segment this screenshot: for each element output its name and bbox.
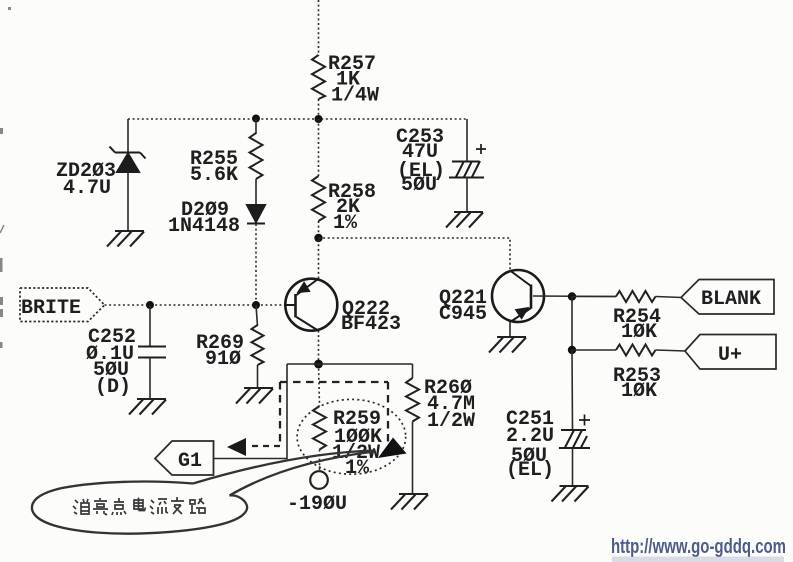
svg-text:5.6K: 5.6K: [190, 164, 238, 187]
svg-text:1ØK: 1ØK: [621, 380, 657, 403]
wire R260 bottom lead: [412, 422, 414, 495]
capacitor C252: [138, 347, 166, 358]
wire Q221 base to node: [533, 295, 616, 298]
resistor R253: [616, 345, 656, 356]
wire node R253 stub: [572, 349, 616, 351]
wire R255 to D209: [255, 179, 257, 205]
ground C252: [129, 399, 166, 415]
wire C251 top lead: [571, 350, 574, 430]
svg-text:1%: 1%: [333, 212, 358, 235]
node junction rail2: [314, 234, 322, 242]
wire node down: [571, 297, 573, 351]
transistor Q221: [492, 270, 544, 322]
svg-text:5ØU: 5ØU: [401, 174, 437, 197]
svg-text:1N4148: 1N4148: [168, 215, 240, 238]
svg-text:1%: 1%: [345, 457, 370, 480]
resistor R258: [312, 176, 325, 221]
diode D209: [247, 205, 265, 224]
resistor R260: [406, 378, 419, 422]
svg-text:BLANK: BLANK: [701, 288, 761, 311]
node junction rail1/R255: [252, 115, 260, 123]
ground ZD203: [107, 231, 144, 247]
wire C253 top lead: [466, 119, 468, 161]
svg-text:91Ø: 91Ø: [205, 348, 241, 371]
resistor R269: [252, 325, 264, 365]
node -190V terminal circle: [310, 471, 328, 489]
node junction rail1/R257: [315, 115, 323, 123]
svg-text:(D): (D): [95, 376, 131, 399]
wire R253 to U+: [656, 350, 687, 351]
flag BRITE input: [20, 288, 105, 322]
wire R259 top lead: [319, 364, 320, 406]
capacitor C251: [559, 415, 590, 449]
wire R259 bottom lead: [319, 450, 321, 472]
wire R269 top lead: [256, 305, 258, 326]
wire C251 bottom lead: [572, 448, 574, 486]
wire Q221 emitter to ground: [509, 322, 511, 337]
svg-text:C945: C945: [439, 303, 487, 326]
flag U+ output: [685, 335, 776, 370]
speech bubble tail lower line: [230, 452, 375, 496]
wire Q222 emitter up: [318, 238, 320, 279]
node junction R253: [568, 346, 576, 354]
capacitor C253: [449, 144, 486, 178]
node junction R254: [568, 292, 576, 300]
dashed arrow to G1: [250, 445, 280, 447]
wire R269 bottom lead: [257, 365, 259, 388]
wire R257 to rail1: [318, 99, 320, 119]
dashed box around R259: [280, 382, 388, 447]
wire C252 bottom lead: [149, 358, 151, 400]
wire rail2 to Q221: [319, 238, 511, 270]
speech bubble: [32, 482, 247, 534]
svg-text:1/2W: 1/2W: [427, 410, 475, 433]
wire R260 top lead: [412, 364, 414, 378]
wire R255 top lead: [255, 119, 257, 134]
ground R269: [236, 388, 273, 404]
node junction C252: [146, 301, 154, 309]
svg-text:BRITE: BRITE: [21, 297, 81, 320]
wire R258 to rail2: [318, 221, 320, 238]
svg-text:-19ØU: -19ØU: [287, 493, 347, 516]
wire top supply into R257: [318, 0, 320, 56]
transistor Q222: [285, 279, 338, 331]
wire node R254 stub: [572, 296, 616, 298]
wire collector net horizontal: [287, 363, 413, 365]
wire Q222 collector down: [318, 331, 320, 365]
resistor R257: [312, 55, 325, 99]
wire ZD203 top lead: [127, 119, 129, 152]
ground C253: [446, 212, 483, 228]
svg-text:(EL): (EL): [506, 459, 554, 482]
svg-text:G1: G1: [178, 450, 202, 473]
svg-text:1/4W: 1/4W: [331, 85, 379, 108]
svg-text:4.7U: 4.7U: [63, 177, 111, 200]
wire ZD203 bottom lead: [127, 172, 129, 231]
flag BLANK output: [681, 280, 774, 315]
wire R254 to BLANK: [656, 297, 683, 298]
arrowhead pointer at R259: [378, 438, 407, 459]
wire down to G1 branch: [214, 364, 288, 459]
watermark reflection smudge: [612, 557, 784, 562]
resistor R255: [250, 133, 263, 179]
svg-text:1ØK: 1ØK: [621, 321, 657, 344]
svg-text:BF423: BF423: [341, 313, 401, 336]
ground C251: [552, 486, 589, 502]
dotted ellipse highlight: [297, 399, 406, 474]
wire C253 bottom lead: [466, 178, 468, 213]
resistor R259: [313, 406, 326, 450]
label bubble chinese text: [73, 497, 205, 515]
resistor R254: [616, 291, 656, 302]
svg-text:U+: U+: [718, 344, 742, 367]
svg-text:http://www.go-gddq.com: http://www.go-gddq.com: [611, 536, 786, 558]
wire R258 top lead: [318, 119, 320, 176]
flag G1: [155, 441, 214, 475]
node junction collector net: [314, 360, 323, 369]
wire C252 top lead: [149, 305, 151, 346]
speech bubble tail upper line: [193, 451, 375, 484]
wire D209 to BRITE line: [255, 224, 257, 305]
ground Q221: [489, 337, 526, 353]
wire rail1 horizontal: [128, 118, 467, 120]
wire BRITE to Q222 base: [105, 304, 285, 306]
node junction R269: [252, 301, 260, 309]
zener diode ZD203: [110, 147, 146, 173]
ground R260: [391, 494, 428, 510]
left edge scan artifacts: [0, 7, 11, 348]
